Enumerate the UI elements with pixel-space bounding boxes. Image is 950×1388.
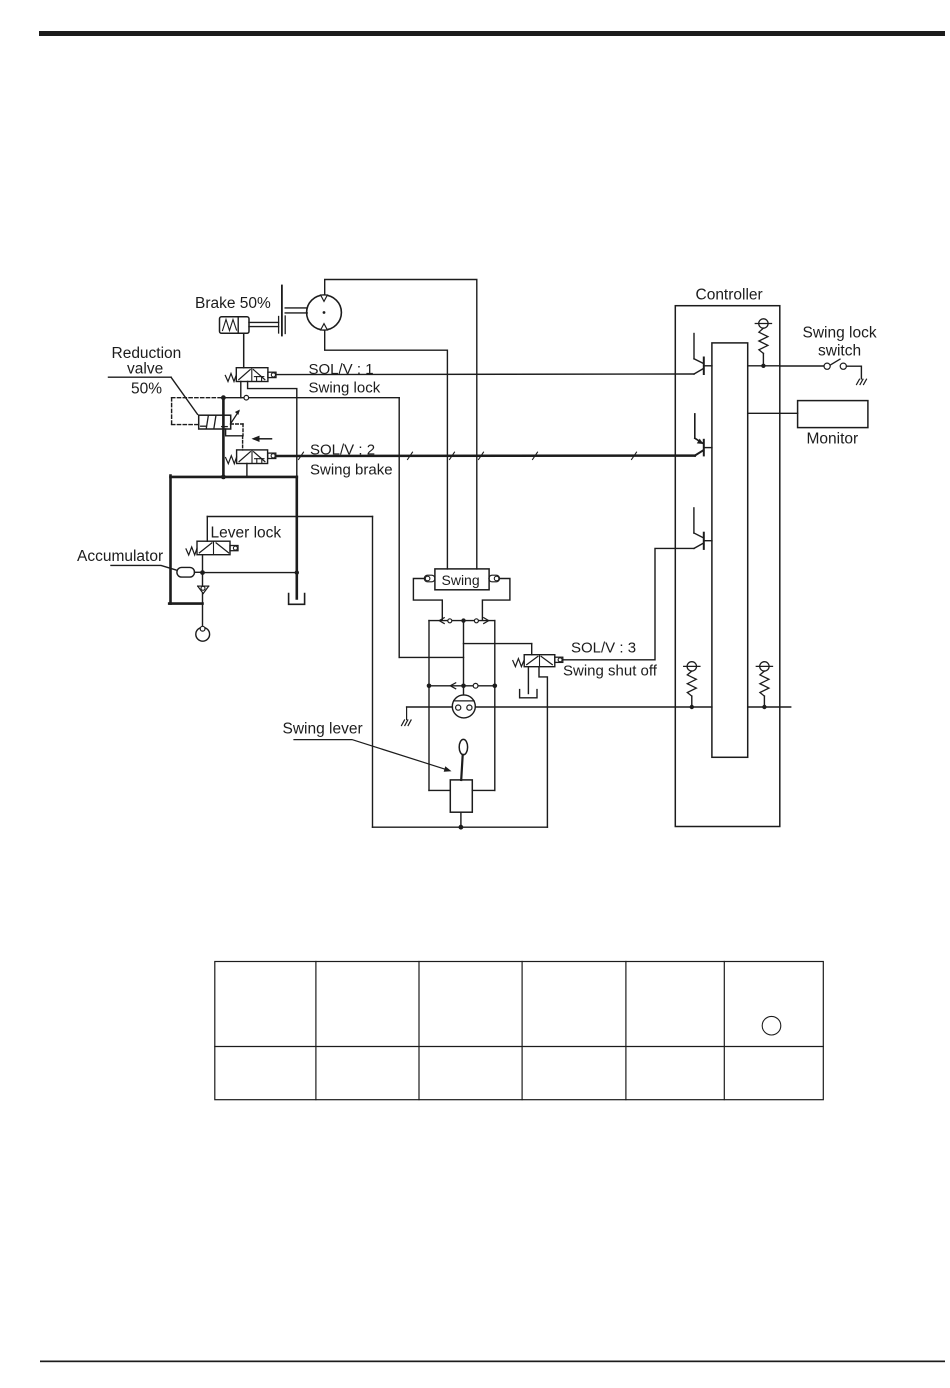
wire swing left branch [413,579,442,620]
svg-text:Swing: Swing [442,572,480,588]
svg-text:Brake 50%: Brake 50% [195,295,271,312]
ground left [402,707,412,726]
lever lock valve [186,541,238,555]
svg-text:SOL/V : 1: SOL/V : 1 [309,361,374,378]
wire SOL/V:3 pilot top [531,644,533,655]
wire reduction valve bottom port [226,429,243,436]
wire pilot to SOL/V:3 [464,643,532,645]
bold left loop vertical [169,476,172,604]
svg-text:Monitor: Monitor [807,431,859,448]
wire brake to valve [243,333,245,367]
svg-text:Swing lock: Swing lock [309,380,381,397]
wire monitor [748,412,798,414]
wire signal to controller [475,706,712,708]
svg-text:switch: switch [818,343,861,360]
wire pilot down right branch [398,398,400,658]
solenoid valve SOL/V:3 [513,655,563,667]
table mark circle [762,1016,781,1035]
joystick base [450,780,472,812]
solenoid valve SOL/V:1 [225,368,276,382]
wire accumulator to node [195,571,201,573]
wire SOL/V:3 drain [527,667,529,694]
wire swing right branch [482,579,510,620]
wire SOL/V:1 to controller Q1 [276,369,703,375]
arrow marker left [252,436,272,442]
swing port left [424,575,435,582]
bottom rule [40,1361,945,1363]
top rule bar [39,31,945,36]
resistor bottom right [756,662,772,710]
svg-text:valve: valve [127,361,163,378]
bold supply line vertical [222,398,225,477]
svg-text:Controller: Controller [696,287,763,304]
pilot reducing valve circle [452,695,475,718]
wire lever lock bottom [202,555,204,586]
transistor Q2 [695,414,712,456]
resistor bottom left [684,662,700,710]
transistor Q1 [694,334,712,375]
wire lever lock top [206,517,208,542]
wire accumulator header [203,572,297,574]
brake disc plate [279,286,286,336]
block top port marks [439,618,489,624]
wire bottom rail right [748,706,791,708]
svg-text:SOL/V : 3: SOL/V : 3 [571,640,636,657]
monitor box [798,401,868,428]
wire joystick drain [460,812,462,827]
wire SOL/V:1 port B elbow [248,382,297,477]
wire SOL/V:2 port down [246,464,248,477]
tank symbol right [289,594,305,605]
wire motor top loop [325,280,477,569]
block inner gallery [427,683,497,689]
leader line reduction valve [109,377,198,414]
swing control box [435,569,489,590]
dashed pilot to SOL/V:2 [242,436,244,450]
svg-text:Accumulator: Accumulator [77,548,163,565]
svg-text:Swing shut off: Swing shut off [563,663,658,680]
brake cylinder [220,317,279,334]
wire pilot header [223,397,399,399]
wire SOL/V:1 port A down [240,382,242,398]
node open circle [244,395,249,400]
swing lock switch [824,359,861,379]
dashed pilot from reduction valve [231,424,243,436]
node junction [295,570,299,574]
bold wire SOL/V:2 to controller Q2 [276,450,704,456]
bold left loop bottom [169,602,202,605]
ground switch [857,379,867,384]
resistor pull-up top [755,319,771,368]
wire lever lock header [207,516,372,518]
wire SOL/V:3 return [539,667,547,828]
wire bottom return [373,826,548,828]
joystick handle [459,739,467,780]
svg-text:Swing brake: Swing brake [310,462,393,479]
motor shaft [285,308,307,313]
tank symbol SOL/V:3 [520,690,537,698]
svg-text:Swing lock: Swing lock [803,325,877,342]
svg-text:Lever lock: Lever lock [211,525,282,542]
svg-text:Swing lever: Swing lever [283,721,363,738]
wire motor bottom loop [325,330,448,569]
dashed enclosure reduction valve [172,398,224,425]
controller inner block [712,343,748,757]
wire Q1 base rail to switch [748,365,824,367]
accumulator [177,567,195,577]
wire check valve to pump [202,594,204,628]
wire crossing slashes [299,452,637,459]
node junction [221,395,226,400]
pilot valve block [429,621,495,791]
wire pilot from SOL/V:1 branch [399,656,463,658]
label Swing lock switch [803,325,877,360]
reduction valve [199,410,240,430]
pilot pump [196,626,210,641]
table [215,962,824,1100]
bold line to tank [295,477,298,599]
leader line accumulator [111,565,176,570]
svg-text:Reduction: Reduction [112,345,182,362]
svg-text:50%: 50% [131,381,162,398]
swing motor [307,295,342,330]
check valve [198,586,209,593]
wire signal left to ground [407,706,453,708]
node junction [200,570,205,575]
label Reduction valve 50% [112,345,182,398]
wire block pilot tap [463,621,465,695]
bold supply line horizontal [171,476,297,479]
node junction [459,825,464,830]
wire SOL/V:3 to controller Q3 [563,543,703,660]
leader arrow swing lever [294,740,452,772]
controller box [675,306,780,827]
transistor Q3 [694,508,712,549]
wire long left loop down [372,517,374,828]
node junction [221,475,226,480]
solenoid valve SOL/V:2 [226,450,276,464]
swing port right [489,575,500,582]
